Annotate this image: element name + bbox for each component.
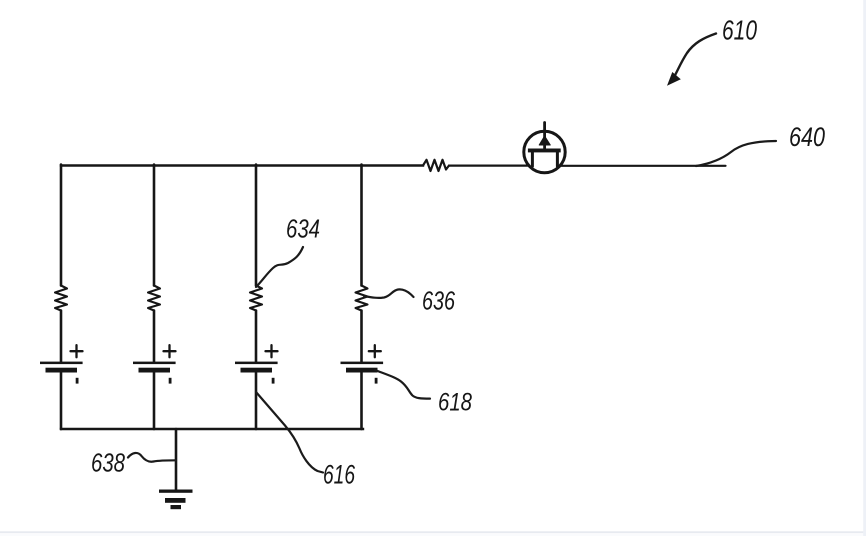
wire from resistor to transistor — [449, 165, 533, 167]
label 638 with leader line — [91, 448, 176, 478]
resistor R2 (branch 2) — [148, 286, 160, 311]
resistor R4 (branch 4, labelled 636) — [356, 286, 368, 311]
branch 4 vertical wire (top) — [360, 165, 363, 286]
bottom rail wire — [61, 428, 363, 430]
faint window edge right — [863, 0, 866, 536]
branch 1 vertical wire (top) — [60, 165, 63, 286]
label 634 with leader line — [256, 214, 320, 288]
battery B2 (branch 2) — [133, 345, 176, 383]
resistor R1 (branch 1) — [55, 286, 67, 311]
top rail wire — [61, 164, 423, 166]
wire resistor to battery (branch 3) — [255, 311, 258, 362]
battery B1 (branch 1) — [40, 345, 83, 383]
faint window edge bottom — [0, 531, 866, 533]
wire resistor to battery (branch 4) — [360, 311, 363, 362]
wire battery to bottom rail (branch 4) — [360, 372, 363, 429]
svg-text:616: 616 — [323, 460, 356, 490]
svg-text:636: 636 — [422, 286, 455, 316]
branch 2 vertical wire (top) — [153, 165, 156, 286]
wire battery to bottom rail (branch 1) — [60, 372, 63, 429]
transistor U1 (circled device) — [524, 123, 565, 173]
svg-text:640: 640 — [789, 122, 825, 152]
label 636 with leader line — [364, 286, 455, 316]
resistor R3 (branch 3, labelled 634) — [250, 286, 262, 311]
branch 3 vertical wire (top) — [255, 165, 258, 286]
svg-text:638: 638 — [91, 448, 125, 478]
label 610 with leader arrow — [667, 15, 758, 86]
wire battery to bottom rail (branch 3) — [255, 372, 258, 429]
svg-text:618: 618 — [438, 389, 472, 417]
ground — [159, 490, 193, 510]
svg-text:610: 610 — [722, 15, 758, 46]
wire battery to bottom rail (branch 2) — [153, 372, 156, 429]
label 618 with leader line — [375, 370, 472, 417]
ground stem wire — [175, 429, 178, 490]
label 640 with leader line — [696, 122, 825, 166]
svg-text:634: 634 — [286, 214, 320, 244]
resistor (series, on top rail) — [423, 160, 449, 171]
label 616 with leader line — [256, 392, 356, 490]
battery B4 (branch 4, labelled 618) — [341, 345, 384, 383]
wire resistor to battery (branch 1) — [60, 311, 63, 362]
wire from transistor to right (node 640 lead) — [558, 165, 726, 167]
wire resistor to battery (branch 2) — [153, 311, 156, 362]
battery B3 (branch 3, labelled 616) — [235, 345, 278, 383]
